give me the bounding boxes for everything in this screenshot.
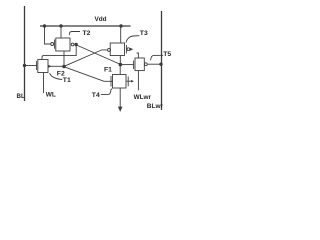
wire node F1 to T5 gate bbox=[120, 64, 133, 66]
node F2 junction dot bbox=[62, 65, 66, 69]
T2 gate bubble bbox=[51, 43, 54, 46]
T4 drain arrow bbox=[131, 80, 134, 83]
bit line BL bbox=[24, 6, 26, 101]
transistor T1 bbox=[38, 60, 48, 73]
arrowhead down bbox=[118, 107, 123, 112]
leader for T5 bbox=[151, 55, 164, 60]
wire T2 source to rail bbox=[60, 26, 62, 38]
T4 drain bar bbox=[127, 77, 129, 87]
transistor T3 bbox=[110, 43, 124, 56]
T2 drain bubble bbox=[71, 43, 74, 46]
wire T4 bottom with arrow bbox=[119, 88, 121, 108]
wire node F2 to T3 gate (cross couple) bbox=[64, 50, 108, 66]
wire T1 top to T2 drain bbox=[42, 45, 76, 60]
T4 drain wire stub bbox=[126, 80, 132, 82]
transistor T1 drain arrow bbox=[48, 65, 51, 68]
T3 drain bar bbox=[125, 45, 127, 54]
wire T5 drain to BLwr bbox=[147, 63, 161, 65]
wire T3 source to rail bbox=[120, 26, 122, 43]
svg-text:F2: F2 bbox=[57, 71, 65, 78]
transistor T5 gate bar bbox=[133, 61, 135, 70]
leader for T4 bbox=[101, 89, 112, 95]
svg-text:WL: WL bbox=[46, 92, 56, 99]
svg-text:T2: T2 bbox=[83, 30, 91, 37]
svg-text:Vdd: Vdd bbox=[95, 16, 107, 23]
transistor T4 gate bar bbox=[110, 76, 112, 87]
svg-text:F1: F1 bbox=[104, 66, 112, 73]
wire T1 drain to node F2 bbox=[48, 65, 64, 67]
wire BL node to T1 gate bbox=[25, 65, 37, 67]
transistor T2 bbox=[56, 38, 70, 51]
leader for T3 bbox=[126, 36, 139, 43]
junction dot rail T3 bbox=[119, 24, 122, 27]
svg-text:WLwr: WLwr bbox=[134, 94, 152, 101]
svg-text:T3: T3 bbox=[140, 30, 148, 37]
svg-text:BLwr: BLwr bbox=[147, 103, 164, 110]
junction dot rail T2 bbox=[59, 24, 62, 27]
wire T3 bottom to node F1 bbox=[119, 56, 121, 65]
svg-text:T1: T1 bbox=[63, 77, 71, 84]
T3 drain arrow bbox=[130, 48, 133, 51]
write bit line BLwr bbox=[161, 11, 163, 110]
transistor T5 bbox=[135, 58, 144, 71]
T3 gate bubble bbox=[108, 48, 111, 51]
Vdd rail bbox=[40, 25, 131, 27]
T3 drain bubble bbox=[127, 48, 130, 51]
node F1 junction dot bbox=[119, 63, 123, 67]
leader for T1 bbox=[50, 73, 63, 79]
wire T5 bottom write word line WLwr bbox=[137, 71, 139, 91]
wire T2 bottom to node F2 bbox=[63, 51, 65, 67]
junction dot on BLwr bbox=[159, 62, 162, 65]
wire node F1 to T4 top bbox=[119, 65, 121, 75]
transistor T1 gate bar bbox=[36, 61, 38, 70]
wire rail to T2 gate bbox=[45, 26, 51, 44]
T2 drain junction dot bbox=[75, 43, 78, 46]
transistor T2 gate bar bbox=[54, 40, 56, 49]
wire T2 drain to node F1 (cross couple) bbox=[76, 45, 120, 65]
node on BL (junction to T1 gate) bbox=[23, 64, 26, 67]
wire T5 top stub bbox=[137, 53, 139, 58]
svg-text:T5: T5 bbox=[163, 51, 171, 58]
junction dot rail left bbox=[43, 24, 46, 27]
transistor T4 bbox=[113, 75, 127, 89]
leader for T2 bbox=[69, 32, 80, 36]
wire node F2 to T4 gate (cross couple) bbox=[64, 67, 112, 82]
svg-text:T4: T4 bbox=[92, 92, 100, 99]
wire T1 bottom word line WL bbox=[43, 73, 45, 94]
T5 drain bubble bbox=[144, 63, 147, 66]
svg-text:BL: BL bbox=[17, 93, 25, 100]
